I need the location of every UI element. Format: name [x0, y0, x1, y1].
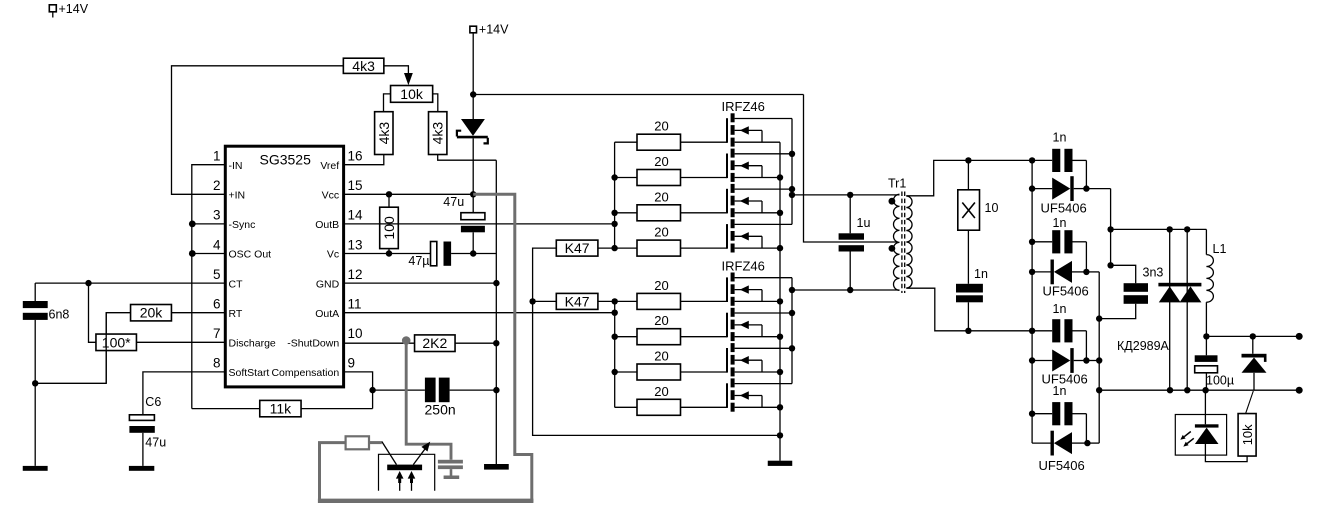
wire CT row pin5: [35, 282, 225, 284]
wire pin8 SoftStart to C6: [143, 372, 225, 415]
capacitor C6 47u: [129, 395, 166, 466]
wire 11k right lead: [301, 408, 373, 410]
svg-text:Compensation: Compensation: [271, 367, 339, 379]
transistor Q (IRFZ46 upper1): [727, 113, 792, 146]
svg-text:Vc: Vc: [327, 249, 339, 261]
svg-text:1n: 1n: [1053, 302, 1067, 316]
node pin9/11k/250n: [369, 387, 375, 393]
label IRFZ46 (upper bank): [722, 99, 765, 114]
power terminal +14V (center top): [470, 22, 509, 36]
output plus rail: [1206, 333, 1302, 340]
svg-text:-ShutDown: -ShutDown: [287, 338, 339, 350]
svg-text:OutB: OutB: [315, 219, 339, 231]
svg-text:7: 7: [213, 326, 221, 341]
wire lower drains to transformer primary bottom: [792, 287, 900, 293]
svg-text:10: 10: [985, 201, 999, 215]
svg-text:1n: 1n: [1053, 384, 1067, 398]
resistor 100 (vertical): [380, 194, 399, 253]
potentiometer 10k: [391, 86, 433, 103]
resistor 20k: [131, 305, 172, 321]
wire 10k left lead to 4k3 left: [384, 94, 391, 112]
inductor L1: [1206, 229, 1226, 355]
resistor 20 (gate, upper2): [615, 154, 727, 186]
svg-text:UF5406: UF5406: [1043, 284, 1089, 299]
diode UF5406 D1: [1032, 176, 1111, 215]
capacitor (gray, soft shutdown): [438, 460, 463, 479]
resistor K47 (upper): [533, 240, 615, 301]
node Vc/100: [386, 250, 392, 256]
svg-text:20: 20: [654, 119, 668, 134]
svg-text:3: 3: [213, 208, 221, 223]
svg-text:20: 20: [654, 189, 668, 204]
wire 11k left lead: [192, 408, 260, 410]
svg-text:250n: 250n: [425, 402, 456, 418]
svg-text:КД2989А: КД2989А: [1117, 339, 1170, 353]
svg-text:IRFZ46: IRFZ46: [722, 258, 765, 273]
svg-text:14: 14: [348, 208, 364, 223]
svg-text:20: 20: [654, 154, 668, 169]
wire D1 output vertical: [1107, 189, 1113, 269]
svg-text:6: 6: [213, 297, 221, 312]
resistor X 10 (snubber): [958, 160, 999, 283]
node Vc/47u junction: [470, 250, 476, 256]
power terminal +14V (top-left): [49, 2, 88, 17]
resistor 20 (gate, lower3): [615, 349, 727, 381]
svg-text:+14V: +14V: [59, 2, 89, 16]
capacitor 1u (across primary): [839, 195, 871, 290]
gate bus lower: [612, 298, 618, 407]
node K47 common: [529, 298, 535, 304]
transistor Q (IRFZ46 lower1): [727, 273, 792, 306]
diode UF5406 D3: [1032, 348, 1099, 386]
capacitor 1n (D4 parallel): [1032, 384, 1086, 443]
wire upper drains to transformer primary top: [792, 192, 900, 198]
svg-text:1n: 1n: [1053, 216, 1067, 230]
gate bus upper: [611, 142, 617, 251]
svg-text:6n8: 6n8: [49, 308, 70, 322]
resistor 20 (gate, upper3): [615, 189, 727, 221]
svg-text:Vref: Vref: [320, 160, 339, 172]
svg-text:L1: L1: [1213, 242, 1227, 256]
svg-text:4: 4: [213, 237, 221, 252]
resistor 4k3 (right vertical): [429, 112, 447, 155]
drain bus upper: [789, 119, 795, 225]
svg-text:K47: K47: [565, 240, 590, 256]
svg-text:100µ: 100µ: [1206, 374, 1234, 388]
node GND bus / 2K2: [493, 340, 499, 346]
wire +14V terminal down: [472, 33, 474, 95]
svg-text:OutA: OutA: [315, 308, 339, 320]
transformer Tr1 secondary winding: [906, 196, 912, 288]
wire K47 return to source bus: [533, 301, 780, 435]
svg-text:4k3: 4k3: [376, 122, 392, 145]
node gray shutdown junction: [402, 336, 411, 345]
wire OutB row pin14 to gate bus: [344, 223, 615, 225]
node Vcc/47u: [470, 191, 476, 197]
resistor 20 (gate, upper1): [615, 119, 727, 151]
node CT/100*: [85, 280, 91, 286]
op-amp U1 SG3525 PWM controller: [213, 146, 363, 387]
wire secondary bottom to AC rail: [906, 288, 1032, 331]
wire 20k return through 100* box: [105, 313, 107, 384]
resistor (gray, opto bias): [346, 436, 382, 449]
resistor 11k: [260, 400, 301, 416]
svg-text:10k: 10k: [1240, 424, 1255, 445]
phototransistor Q (opto): [382, 442, 430, 471]
transistor Q (IRFZ46 upper2): [727, 149, 792, 182]
svg-text:20: 20: [654, 313, 668, 328]
wire D2/D3/D4 vertical: [1096, 272, 1102, 443]
optocoupler LED light arrows: [1180, 432, 1194, 447]
svg-text:CT: CT: [229, 278, 244, 290]
wire 100* left up to CT: [89, 283, 96, 342]
polarity dot primary upper: [889, 198, 896, 205]
resistor 4k3 (top horizontal): [343, 58, 384, 74]
wire 2K2 to ground bus: [455, 342, 496, 344]
light arrow 2 (into phototransistor): [408, 471, 416, 491]
node Vcc/100: [386, 191, 392, 197]
svg-text:20: 20: [654, 384, 668, 399]
resistor 10k (vertical): [1238, 414, 1256, 457]
wire pin2 +IN feedback loop to top 4k3: [172, 66, 344, 195]
resistor 20 (gate, upper4): [615, 225, 727, 257]
svg-text:47u: 47u: [443, 195, 464, 209]
capacitor 1n (D2 parallel): [1032, 216, 1086, 272]
phototransistor box: [379, 454, 435, 491]
svg-text:12: 12: [348, 267, 363, 282]
svg-text:1n: 1n: [974, 267, 988, 281]
svg-text:UF5406: UF5406: [1041, 201, 1087, 216]
wire 4k3 left bottom to pin16 Vref: [344, 155, 384, 165]
transistor Q (IRFZ46 lower4): [727, 378, 792, 411]
svg-text:SG3525: SG3525: [260, 152, 312, 168]
node +14V / drain rail: [470, 91, 476, 97]
wire secondary top to AC rail: [906, 160, 1032, 195]
svg-text:10k: 10k: [400, 86, 424, 102]
pin4 OSC Out stub: [189, 250, 225, 257]
svg-text:15: 15: [348, 178, 363, 193]
wire +14V to upper drain bus: [473, 94, 803, 96]
capacitor 1n (D3 parallel): [1032, 302, 1086, 361]
svg-text:13: 13: [348, 237, 363, 252]
output top rail: [1111, 226, 1207, 232]
svg-text:Vcc: Vcc: [322, 190, 340, 202]
node AC top / snubber: [965, 157, 971, 163]
wire RT pin6 to 20k: [172, 312, 226, 314]
svg-text:47µ: 47µ: [408, 254, 429, 268]
output bottom rail: [1099, 387, 1303, 394]
capacitor 250n: [373, 378, 497, 418]
svg-text:K47: K47: [565, 293, 590, 309]
wire 10k bottom to LED: [1205, 444, 1247, 462]
label Tr1: [888, 177, 906, 191]
svg-text:-Sync: -Sync: [229, 219, 256, 231]
diode UF5406 D2: [1032, 260, 1099, 299]
resistor 100*: [96, 334, 137, 351]
zener diode (output clamp): [1242, 336, 1267, 390]
wire 4k3 right bottom to ground bus: [438, 155, 497, 161]
label IRFZ46 (lower bank): [722, 258, 765, 273]
capacitor 47u (Vcc electrolytic): [443, 194, 485, 253]
drain bus lower: [789, 278, 795, 384]
ground (source bus): [768, 461, 793, 466]
ground (6n8): [23, 466, 48, 471]
svg-text:2: 2: [213, 178, 221, 193]
svg-text:20: 20: [654, 278, 668, 293]
svg-text:11k: 11k: [270, 401, 293, 417]
node AC bottom / 1n: [965, 328, 971, 334]
wire 20k left to bottom node: [35, 313, 130, 384]
capacitor 47µ (on Vc): [408, 242, 496, 269]
optocoupler LED: [1195, 390, 1219, 444]
diode pair КД2989А: [1117, 229, 1201, 390]
svg-text:UF5406: UF5406: [1039, 458, 1085, 473]
capacitor 6n8: [23, 283, 70, 466]
node 6n8 bottom: [32, 380, 38, 386]
capacitor 1n (D1 parallel): [1032, 131, 1086, 189]
svg-text:C6: C6: [145, 395, 161, 409]
wire 10k right lead to 4k3 right: [433, 94, 438, 112]
transistor Q (IRFZ46 upper4): [727, 219, 792, 252]
diode UF5406 D4: [1032, 431, 1099, 473]
ground (C6): [129, 466, 154, 471]
svg-text:+14V: +14V: [479, 22, 509, 36]
svg-text:20: 20: [654, 225, 668, 240]
svg-text:8: 8: [213, 356, 221, 371]
svg-text:-IN: -IN: [229, 160, 243, 172]
capacitor 3n3: [1099, 265, 1163, 318]
transformer Tr1 primary winding: [894, 194, 900, 290]
polarity dot primary lower: [889, 245, 896, 252]
svg-text:IRFZ46: IRFZ46: [722, 99, 765, 114]
wire Vcc row pin15: [344, 193, 474, 195]
optocoupler LED box: [1175, 415, 1226, 456]
resistor K47 (lower): [533, 293, 615, 309]
transformer Tr1 core: [902, 192, 905, 294]
svg-text:20k: 20k: [140, 305, 164, 321]
svg-text:47u: 47u: [145, 436, 166, 450]
svg-text:20: 20: [654, 349, 668, 364]
svg-text:RT: RT: [229, 308, 243, 320]
zener diode (supply clamp): [457, 95, 488, 195]
left rectifier rail: [1029, 157, 1035, 443]
resistor 20 (gate, lower4): [615, 384, 727, 416]
svg-text:GND: GND: [316, 278, 340, 290]
svg-text:SoftStart: SoftStart: [229, 367, 270, 379]
svg-text:9: 9: [348, 356, 356, 371]
wire gray pin10 shutdown line: [406, 341, 451, 460]
node GND bus / 250n: [493, 387, 499, 393]
svg-text:16: 16: [348, 149, 363, 164]
svg-text:4k3: 4k3: [352, 58, 375, 74]
wire pin9 jog down: [344, 372, 373, 409]
ground (bus 496): [484, 464, 509, 470]
svg-text:11: 11: [348, 297, 362, 312]
svg-text:10: 10: [348, 326, 363, 341]
wire GND row pin12: [344, 282, 497, 284]
transistor Q (IRFZ46 lower3): [727, 343, 792, 376]
svg-text:1u: 1u: [857, 216, 871, 230]
ground bus vertical (496): [495, 160, 497, 464]
svg-text:1: 1: [213, 149, 221, 164]
wire Discharge pin7 to 100*: [136, 341, 225, 343]
svg-text:2K2: 2K2: [422, 335, 447, 351]
wire zener to 10k (diagonal): [1246, 391, 1254, 414]
wire +14V down to transformer center tap: [804, 95, 898, 243]
svg-text:5: 5: [213, 267, 221, 282]
svg-text:3n3: 3n3: [1143, 266, 1164, 280]
svg-text:1n: 1n: [1053, 131, 1067, 145]
wire gray Vcc feed loop: [318, 194, 534, 501]
node GND bus / pin12: [493, 280, 499, 286]
source bus: [777, 142, 783, 461]
transistor Q (IRFZ46 upper3): [727, 184, 792, 217]
node L1 / output+: [1203, 333, 1209, 339]
light arrow 1 (into phototransistor): [396, 471, 404, 491]
resistor 20 (gate, lower1): [615, 278, 727, 310]
svg-text:Discharge: Discharge: [229, 338, 276, 350]
resistor 4k3 (left vertical): [375, 112, 393, 155]
svg-text:4k3: 4k3: [430, 122, 446, 145]
svg-text:100: 100: [381, 216, 397, 240]
capacitor 100µ: [1195, 355, 1234, 390]
wire Vc row pin13: [344, 253, 431, 255]
wire OutA row pin11 to gate bus: [344, 312, 615, 314]
pin3 -Sync stub: [189, 221, 225, 228]
resistor 2K2: [415, 335, 456, 352]
resistor 20 (gate, lower2): [615, 313, 727, 345]
svg-text:Tr1: Tr1: [888, 177, 906, 191]
svg-text:OSC Out: OSC Out: [229, 249, 272, 261]
transistor Q (IRFZ46 lower2): [727, 308, 792, 341]
wire pin10 -ShutDown to 2K2: [344, 342, 415, 344]
svg-text:+IN: +IN: [229, 190, 246, 202]
wire 4k3 to 10k pot wiper + wiper arrow: [384, 66, 413, 85]
wire pin1 -IN down to 11k: [192, 165, 226, 409]
capacitor 1n (snubber): [956, 267, 988, 331]
